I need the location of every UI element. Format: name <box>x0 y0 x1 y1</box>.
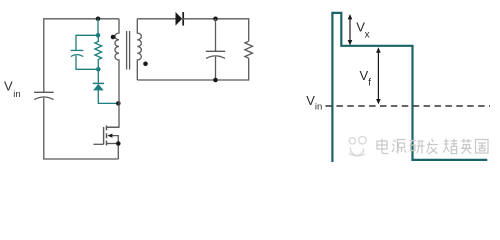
MOSFET drain lead <box>107 126 119 128</box>
MOSFET body lead + arrow <box>112 136 119 159</box>
watermark text 电源研发精英圈 (drawn strokes) <box>377 139 488 154</box>
英 <box>461 139 472 154</box>
node: output cap top <box>213 17 218 22</box>
wire: snubber top to cap branch <box>76 35 98 50</box>
dashed Vin level line <box>326 105 491 107</box>
diode D snubber (teal, pointing up) <box>97 69 99 83</box>
arrow Vx <box>348 14 353 45</box>
电 <box>377 139 389 154</box>
wire: left rail + top rail (Vin loop) <box>44 19 119 92</box>
capacitor C snubber <box>71 49 84 51</box>
wire: load bottom + bottom rail <box>137 58 248 80</box>
wire: secondary top rail to diode <box>137 18 175 20</box>
wire: diode to output right rail <box>183 19 249 41</box>
svg-text:in: in <box>13 89 20 100</box>
node: drain junction <box>116 101 121 106</box>
研 <box>410 141 425 154</box>
waveform trace <box>332 13 487 162</box>
wire: left rail lower + bottom rail <box>44 98 119 159</box>
capacitor Cin <box>34 91 54 93</box>
diode D out (black) <box>176 12 183 26</box>
源 <box>392 140 406 154</box>
node: snubber top (teal) <box>96 33 101 38</box>
svg-text:V: V <box>4 78 13 93</box>
resistor R load <box>245 41 253 58</box>
精 <box>443 139 458 154</box>
MOSFET channel segments <box>106 126 108 146</box>
primary phase dot <box>111 35 116 40</box>
node: output cap bottom <box>213 78 218 83</box>
node: source dot <box>116 141 121 146</box>
capacitor C out <box>215 19 217 51</box>
svg-text:x: x <box>365 29 370 40</box>
MOSFET gate stub <box>94 143 104 145</box>
resistor R snubber <box>95 35 102 69</box>
transformer T1 secondary <box>137 19 141 80</box>
wire: snubber cap bottom <box>76 56 98 70</box>
watermark icon <box>349 136 366 155</box>
transformer core <box>127 31 130 70</box>
MOSFET source lead <box>107 143 119 145</box>
wire: teal drop to snubber <box>97 19 99 36</box>
发 <box>427 139 439 154</box>
arrow Vf <box>376 47 381 104</box>
node: snubber bottom (teal) <box>96 67 101 72</box>
secondary phase dot <box>143 62 148 67</box>
node: top junction <box>96 17 101 22</box>
transistor Q1 MOSFET gate bar <box>103 127 105 144</box>
transformer T1 primary <box>106 19 119 127</box>
圈 <box>476 140 489 154</box>
svg-text:V: V <box>360 68 369 83</box>
wire: snubber diode to drain node <box>98 90 118 103</box>
svg-text:f: f <box>368 78 371 89</box>
svg-text:in: in <box>315 102 322 113</box>
